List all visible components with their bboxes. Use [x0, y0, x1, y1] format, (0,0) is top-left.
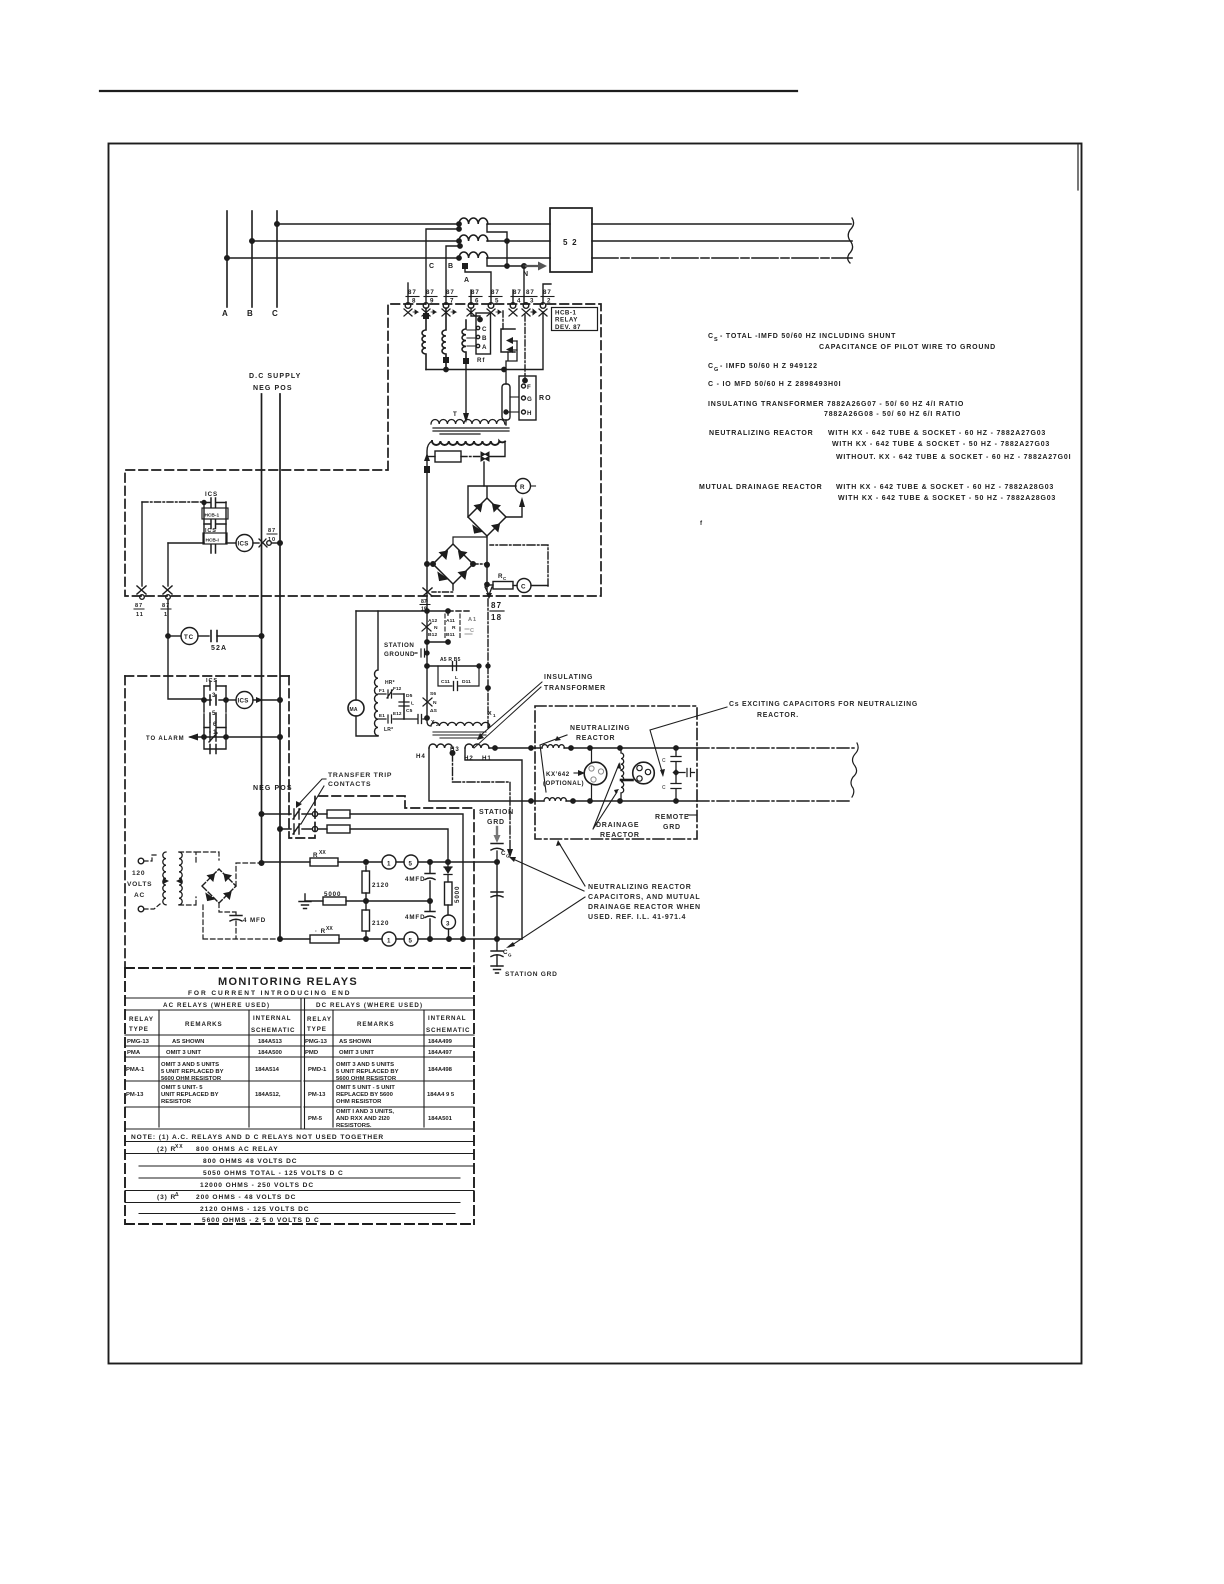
wire RC right — [513, 585, 517, 587]
svg-text:PMA-1: PMA-1 — [126, 1067, 145, 1073]
node b2 — [485, 582, 489, 586]
svg-text:F1: F1 — [379, 688, 385, 693]
wire bridge2 right dashdot — [473, 563, 487, 565]
wire tube2 to drainage — [621, 779, 633, 782]
table line under col headers — [125, 1034, 474, 1036]
wire 3 to bottom — [448, 929, 450, 939]
node CT1 tap — [457, 227, 461, 231]
capacitor D5-C5 — [399, 694, 409, 719]
svg-text:WITH KX - 642 TUBE & SOCKE: WITH KX - 642 TUBE & SOCKET - 50 HZ - 78… — [838, 495, 1056, 502]
svg-text:C: C — [503, 576, 507, 581]
wire diode branch down — [483, 462, 485, 486]
capacitor contact bottom — [211, 545, 216, 553]
svg-text:PMD: PMD — [305, 1050, 318, 1056]
svg-text:N: N — [434, 625, 438, 631]
arrow kx to tube — [574, 772, 580, 774]
node mt3 — [446, 860, 451, 865]
svg-text:HCB-1: HCB-1 — [555, 310, 576, 317]
transformer 120v winding 1 — [163, 852, 166, 905]
svg-text:B: B — [247, 309, 254, 318]
svg-text:REMARKS: REMARKS — [357, 1021, 395, 1028]
node mb4 — [461, 937, 466, 942]
wire RC left — [487, 584, 493, 586]
wire A5 branch — [427, 665, 480, 667]
resistor RXX top — [310, 858, 338, 866]
leader drainage reactor — [593, 764, 619, 829]
svg-text:5600 OHM RESISTOR: 5600 OHM RESISTOR — [336, 1076, 397, 1082]
node 611-main — [425, 609, 429, 613]
wire C-circle loop — [490, 545, 548, 586]
table row line 4 DC — [304, 1106, 474, 1108]
svg-text:5600 OHMS - 2 5 0 VOLTS D C: 5600 OHMS - 2 5 0 VOLTS D C — [202, 1217, 320, 1224]
svg-text:C: C — [521, 584, 526, 591]
svg-text:L: L — [411, 701, 414, 707]
bus line 3 (bottom) — [227, 257, 550, 259]
wire box to diode dashdot — [461, 456, 481, 458]
wire N to contact 87-3 — [523, 266, 525, 304]
wire A tap to contact 87-5 — [465, 268, 491, 304]
monitoring dashed box outline — [289, 676, 474, 968]
capacitor Cg bottom — [491, 939, 503, 966]
wire secondary left down — [427, 441, 432, 601]
svg-text:INTERNAL: INTERNAL — [428, 1015, 466, 1022]
node p4 — [674, 746, 678, 750]
contact 87-6 — [467, 289, 482, 316]
svg-text:R: R — [313, 852, 318, 859]
svg-text:C - IO MFD 50/60 H Z 289: C - IO MFD 50/60 H Z 2898493H0I — [708, 381, 841, 388]
coil contact 1 bottom — [382, 932, 396, 946]
fold mark top right — [1077, 145, 1079, 190]
node alarm right — [224, 735, 228, 739]
wire stub above 87-8 — [407, 283, 409, 304]
contact trip 1 — [293, 809, 300, 819]
arrow station grd — [496, 827, 498, 837]
svg-text:87: 87 — [491, 601, 502, 610]
svg-text:184A500: 184A500 — [258, 1050, 283, 1056]
wire contact3 to F dashdot — [524, 315, 526, 378]
svg-text:DEV. 87: DEV. 87 — [555, 324, 581, 331]
svg-text:TRANSFER TRIP: TRANSFER TRIP — [328, 772, 392, 779]
node mb3 — [447, 937, 452, 942]
svg-text:f: f — [700, 520, 703, 527]
svg-text:REACTOR: REACTOR — [600, 832, 640, 839]
svg-text:5: 5 — [409, 938, 413, 945]
contact 1 X-cap — [209, 732, 217, 742]
svg-text:5000: 5000 — [324, 891, 341, 898]
table col line DC remarks — [423, 1010, 425, 1127]
SEC:NOTES — [699, 333, 1071, 502]
svg-text:GROUND: GROUND — [384, 651, 415, 658]
svg-text:C: C — [429, 263, 435, 270]
bridge1 diode SE — [492, 524, 500, 532]
capacitor Cc upper — [671, 748, 681, 770]
svg-text:A12: A12 — [428, 618, 437, 624]
node alarm left — [202, 735, 206, 739]
svg-text:52A: 52A — [211, 645, 227, 652]
svg-text:E1: E1 — [379, 713, 385, 718]
svg-text:XX: XX — [319, 850, 326, 856]
svg-text:STATION: STATION — [384, 642, 414, 649]
svg-text:9: 9 — [430, 298, 434, 305]
wire ICS line left — [168, 542, 204, 544]
dash remote grd — [688, 814, 697, 816]
restraint coil 1 — [422, 308, 426, 370]
svg-text:R: R — [452, 625, 456, 631]
svg-text:C: C — [662, 758, 666, 764]
node lower right — [224, 698, 228, 702]
wire 5000v to 3 — [447, 905, 449, 915]
svg-text:F12: F12 — [393, 686, 402, 691]
polar arrow 1 — [512, 340, 517, 342]
wire B tap to contact 87-7 — [446, 246, 460, 304]
meter C circle — [517, 579, 531, 593]
svg-text:OMIT I AND 3 UNITS,: OMIT I AND 3 UNITS, — [336, 1109, 394, 1115]
contact 87-7 — [442, 289, 457, 316]
wire box left — [427, 456, 435, 458]
svg-text:(2) R: (2) R — [157, 1146, 176, 1153]
table row line 4 AC — [125, 1106, 301, 1108]
capacitor C11-D11 — [454, 682, 458, 691]
svg-text:A5 R B5: A5 R B5 — [440, 657, 461, 663]
svg-text:5000: 5000 — [454, 886, 461, 903]
wire arrow ICS to POS — [253, 699, 280, 701]
svg-text:TRANSFORMER: TRANSFORMER — [544, 685, 606, 692]
node H junction — [504, 410, 508, 414]
bridge2 diode SE — [459, 571, 467, 579]
node 52A-NEG — [259, 634, 264, 639]
polar arrow 2 — [512, 349, 517, 351]
svg-text:Rf: Rf — [477, 357, 485, 364]
capacitor mid — [491, 892, 503, 897]
contact 87-5 — [487, 289, 502, 316]
wire R stub right — [531, 485, 536, 487]
svg-text:OMIT 3 AND 5 UNITS: OMIT 3 AND 5 UNITS — [336, 1062, 394, 1068]
svg-text:REPLACED BY 5600: REPLACED BY 5600 — [336, 1092, 394, 1098]
contact trip 2 — [293, 824, 300, 834]
svg-text:PM-13: PM-13 — [126, 1092, 144, 1098]
svg-text:Δ: Δ — [175, 1192, 180, 1198]
resistor 5000 vertical — [445, 882, 453, 905]
resistor 2120 upper — [362, 871, 370, 893]
wire mid vertical 87-1 — [167, 543, 169, 586]
transformer T core — [433, 428, 509, 434]
svg-text:3: 3 — [446, 921, 450, 928]
svg-text:C: C — [708, 363, 714, 370]
svg-text:5: 5 — [409, 861, 413, 868]
Rf tap circle A — [476, 344, 479, 347]
node ICS2-POS — [278, 698, 283, 703]
svg-text:NEG POS: NEG POS — [253, 785, 293, 792]
svg-text:B12: B12 — [428, 632, 437, 638]
svg-text:REMOTE: REMOTE — [655, 814, 689, 821]
node b1 — [485, 563, 489, 567]
contact 87-10 — [259, 539, 267, 547]
svg-text:PM-13: PM-13 — [308, 1092, 326, 1098]
wire station grd vertical — [496, 862, 498, 939]
wire bridge2 bottom stub — [432, 584, 453, 592]
svg-text:MUTUAL DRAINAGE REACTOR: MUTUAL DRAINAGE REACTOR — [699, 484, 823, 491]
capacitor contact 5 — [210, 713, 216, 722]
contact A12 X — [422, 623, 431, 631]
capacitor contact below box — [204, 520, 226, 529]
table outer dashed border — [125, 968, 474, 1224]
bus POS vertical — [279, 394, 281, 939]
restraint coil 2 — [442, 308, 446, 370]
wire winding2 to bridge dashed — [179, 852, 219, 905]
wire y642 link — [427, 641, 448, 643]
contact 87-3 — [522, 289, 537, 316]
svg-text:SCHEMATIC: SCHEMATIC — [251, 1027, 295, 1034]
coil contact 5 bottom — [404, 932, 418, 946]
thermal box — [435, 451, 461, 462]
node p7 — [618, 799, 622, 803]
svg-text:F: F — [527, 384, 532, 391]
node pilot 1 — [493, 746, 497, 750]
wire CT return right side — [487, 225, 524, 266]
wire stub above 87-6 — [470, 290, 472, 304]
wire TC to cap — [198, 635, 209, 637]
SEC:BUS — [227, 211, 854, 307]
node m2 — [425, 651, 429, 655]
svg-text:C: C — [708, 333, 714, 340]
bridge1 diode SW — [473, 526, 482, 534]
table center double line — [301, 998, 305, 1129]
Rf tap circle C — [476, 326, 479, 329]
table line under band headers — [125, 1009, 474, 1011]
svg-text:DRAINAGE REACTOR WHEN: DRAINAGE REACTOR WHEN — [588, 904, 701, 911]
drainage reactor coil — [621, 748, 624, 801]
node bridge-NEG — [259, 861, 264, 866]
wire monitor top line — [262, 861, 498, 863]
svg-text:C5: C5 — [406, 708, 413, 714]
table col line DC relay — [332, 1010, 334, 1127]
svg-text:RELAY: RELAY — [129, 1016, 154, 1023]
node m1 — [425, 640, 429, 644]
node ICS-POS — [278, 541, 283, 546]
svg-text:DRAINAGE: DRAINAGE — [596, 822, 639, 829]
node m4 — [425, 716, 429, 720]
node mt1 — [364, 860, 369, 865]
svg-text:PM-5: PM-5 — [308, 1116, 323, 1122]
node m3 — [425, 664, 429, 668]
svg-text:18: 18 — [491, 613, 502, 622]
contact 52A — [211, 631, 217, 642]
node 611-A11 — [446, 609, 450, 613]
wire trip line 2 — [280, 829, 448, 861]
capacitor 4MFD lower — [425, 912, 435, 918]
node 642-A11 — [446, 640, 450, 644]
wire E rail to X2 with cap — [404, 715, 427, 724]
node bus C tap — [275, 222, 280, 227]
svg-text:C: C — [482, 326, 487, 333]
svg-text:PMA: PMA — [127, 1050, 141, 1056]
svg-text:C: C — [470, 628, 475, 634]
resistor 5000 h — [323, 897, 346, 905]
capacitor contact 3 — [210, 695, 216, 705]
box HCB-1 seal — [202, 508, 228, 519]
monitoring dashed box left — [124, 676, 126, 968]
wire dashdot 87-18 column — [487, 599, 489, 727]
upper ICS contact group rails — [204, 502, 226, 543]
capacitor Cc lower — [671, 776, 681, 801]
table body bottom — [125, 1128, 474, 1130]
wire to TC — [168, 635, 181, 637]
wire contact6 to Rf top — [471, 308, 480, 319]
node CT2 left — [457, 239, 461, 243]
contact 87-1 X — [163, 586, 172, 594]
capacitor 4MFD upper — [425, 874, 435, 880]
svg-text:87: 87 — [135, 603, 143, 609]
svg-text:HCB-1: HCB-1 — [205, 513, 220, 519]
bridge1 diode NE — [493, 504, 501, 512]
svg-text:4MFD: 4MFD — [405, 914, 425, 921]
svg-text:184A4 9 5: 184A4 9 5 — [427, 1092, 455, 1098]
diode pair (zener) — [481, 452, 489, 461]
capacitor contact ICS lower — [204, 681, 226, 690]
node x1 — [486, 686, 490, 690]
wire 52A to NEG — [217, 635, 262, 637]
leader note to cg bottom — [509, 897, 585, 947]
svg-text:87: 87 — [491, 289, 500, 296]
node mb1 — [364, 937, 369, 942]
svg-text:RELAY: RELAY — [555, 317, 578, 324]
node F top — [523, 378, 527, 382]
svg-text:INSULATING: INSULATING — [544, 674, 593, 681]
svg-text:CONTACTS: CONTACTS — [328, 781, 371, 788]
wire C11 branch — [438, 666, 479, 686]
Rf tap circle B — [476, 335, 479, 338]
svg-text:TO ALARM: TO ALARM — [146, 736, 185, 742]
wire ICS line right — [226, 542, 236, 544]
svg-text:VOLTS: VOLTS — [127, 881, 152, 888]
bridge3 diode SW — [206, 894, 215, 901]
bridge2 diode NE — [459, 551, 467, 559]
resistor RXX bottom — [310, 935, 339, 943]
wire dashed A1 column — [448, 610, 471, 612]
operating coil 3 with taps — [462, 320, 466, 361]
contact 87-4 — [509, 289, 524, 316]
wire 5000 line — [305, 900, 430, 902]
diode monitor — [444, 862, 452, 882]
node p8 — [674, 799, 678, 803]
capacitor remote ground stub — [679, 769, 695, 777]
svg-text:87: 87 — [513, 289, 522, 296]
bridge3 diode NW — [208, 874, 215, 881]
node square coil3 bottom — [463, 358, 469, 364]
bridge2 diode SW — [438, 573, 448, 581]
leader note to box — [559, 843, 585, 886]
svg-text:(OPTIONAL): (OPTIONAL) — [543, 780, 584, 787]
table line under titles — [125, 997, 474, 999]
svg-text:87: 87 — [408, 289, 417, 296]
transformer T secondary winding — [432, 441, 505, 445]
contact 87-11 X — [137, 586, 146, 594]
svg-text:RO: RO — [539, 395, 552, 402]
coil contact 5 top — [404, 855, 418, 869]
svg-text:NEUTRALIZING REACTOR: NEUTRALIZING REACTOR — [588, 884, 692, 891]
svg-text:2120: 2120 — [372, 882, 389, 889]
svg-text:C: C — [662, 785, 666, 791]
svg-text:DC RELAYS (WHERE USED): DC RELAYS (WHERE USED) — [316, 1002, 423, 1009]
insulating transformer secondary H4-H3 — [429, 744, 452, 748]
wire bridge top rail — [468, 486, 516, 517]
HCB-1 relay name box — [552, 308, 598, 331]
bus break squiggle right — [848, 218, 854, 263]
svg-text:R: R — [520, 484, 525, 491]
pilot dashdot right bottom — [697, 800, 852, 802]
svg-text:A: A — [464, 277, 470, 284]
coil contact 1 top — [382, 855, 396, 869]
box HCB-I seal 2 — [203, 533, 227, 544]
bridge1 diode NW — [475, 504, 483, 512]
svg-text:B: B — [482, 335, 487, 342]
capacitor station ground — [415, 649, 427, 657]
contact 87-19 X — [423, 588, 432, 596]
RO circle H — [522, 410, 526, 414]
bridge3 diode NE — [224, 874, 231, 881]
wire 87-1 down to TC — [168, 599, 204, 699]
svg-text:WITHOUT. KX - 642 TUBE & SOC: WITHOUT. KX - 642 TUBE & SOCKET - 60 HZ … — [836, 454, 1071, 461]
rectifier bridge 120v — [202, 869, 236, 903]
pilot break squiggle — [851, 743, 858, 797]
wire H3 tap dashdot — [453, 753, 511, 850]
svg-text:1: 1 — [493, 713, 496, 718]
leader neutralizing reactor — [540, 735, 567, 792]
tube KX-642 no1 — [584, 762, 607, 785]
svg-text:OMIT 5 UNIT - 5 UNIT: OMIT 5 UNIT - 5 UNIT — [336, 1085, 395, 1091]
svg-text:87: 87 — [162, 603, 170, 609]
ground symbol station grd — [491, 966, 503, 973]
meter MA circle — [348, 700, 364, 716]
outer border frame — [109, 144, 1082, 1364]
wire tube1 leads — [591, 748, 593, 801]
resistor vertical (RO feed) — [502, 384, 510, 420]
svg-text:ICS: ICS — [205, 491, 218, 498]
svg-text:REMARKS: REMARKS — [185, 1021, 223, 1028]
node main-bridge2 — [425, 562, 430, 567]
wire G tap — [510, 396, 519, 398]
bottom rail — [426, 312, 543, 370]
node Cc mid diamond — [673, 769, 680, 776]
svg-text:120: 120 — [132, 870, 145, 877]
svg-text:TC: TC — [184, 634, 194, 641]
svg-text:NEG POS: NEG POS — [253, 385, 293, 392]
svg-text:WITH KX - 642 TUBE & SOCKE: WITH KX - 642 TUBE & SOCKET - 60 HZ - 78… — [828, 430, 1046, 437]
node bridge2 right — [471, 562, 476, 567]
wire bridge2 left to main — [427, 563, 433, 565]
svg-text:6: 6 — [475, 298, 479, 305]
node bridge2-b1 — [485, 562, 489, 566]
svg-text:G: G — [508, 953, 512, 958]
leader insulating transformer — [474, 682, 542, 748]
svg-text:NEUTRALIZING REACTOR: NEUTRALIZING REACTOR — [709, 430, 814, 437]
relay TC circle — [181, 628, 198, 645]
svg-text:G: G — [506, 854, 510, 859]
CT coil phase B (middle bus) — [459, 235, 488, 241]
node p3 — [618, 746, 622, 750]
wire MA vertical — [356, 611, 378, 736]
leader transfer trip — [297, 779, 326, 824]
svg-text:D5: D5 — [406, 693, 413, 699]
node p2 — [588, 746, 592, 750]
svg-text:H4: H4 — [416, 753, 426, 760]
contact 87-8 — [404, 289, 419, 316]
node mt4 — [495, 860, 500, 865]
contact 87-9 — [422, 289, 437, 316]
wire bridge2 top link — [453, 537, 487, 544]
node N junction — [522, 264, 527, 269]
resistor 2120 lower — [362, 910, 370, 931]
